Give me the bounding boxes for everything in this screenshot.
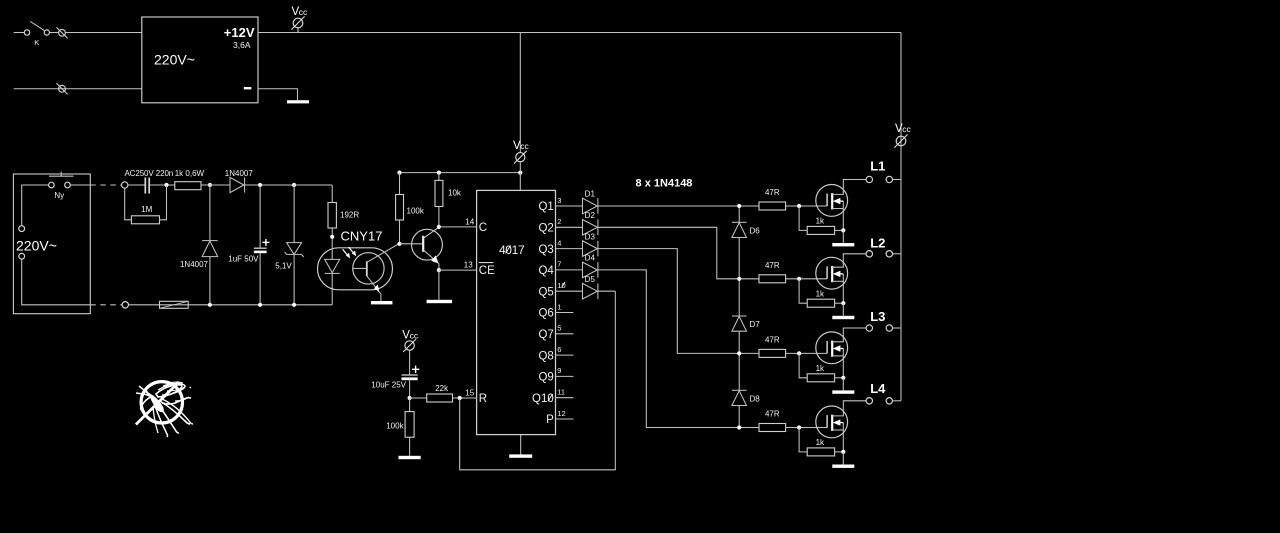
resistor 1k (row 1) — [807, 226, 834, 234]
load terminal L1 (left circle) — [866, 176, 872, 182]
opto phototransistor emitter lead — [367, 276, 381, 294]
MOSFET T3 source lead — [832, 349, 843, 378]
wire: 1k to source node (row 3) — [835, 377, 844, 379]
wire: terminal to capacitor C1 — [128, 184, 145, 186]
wire: gate node to 1k (row 2) — [799, 279, 807, 303]
wire: zener bottom lead — [293, 254, 295, 304]
pin stub Q10 (pin 11) — [556, 397, 574, 399]
svg-text:22k: 22k — [435, 384, 449, 393]
MOSFET T2 (circle) — [816, 257, 848, 289]
wire: Ny to box edge — [70, 184, 90, 186]
MOSFET T2 gate bar — [826, 266, 828, 278]
wire: 1k to source node (row 4) — [835, 451, 844, 453]
wire: lower terminal to box edge (bottom) — [22, 259, 91, 305]
wire: rail to R5 10k — [438, 173, 440, 181]
diode D 1N4007 (shunt, vertical) — [202, 241, 218, 257]
label D4 — [585, 254, 596, 263]
node dot (gate bus row 3) — [737, 351, 741, 355]
pin stub Q5 (pin 10) — [556, 290, 583, 292]
MOSFET T3 (circle) — [816, 332, 848, 364]
Q1 base bar — [422, 236, 424, 252]
svg-text:1uF 50V: 1uF 50V — [228, 254, 259, 263]
svg-text:100k: 100k — [386, 422, 404, 431]
wire: source node to ground (row 3) — [842, 378, 844, 391]
node dot (reset pin node) — [458, 396, 462, 400]
MOSFET T1 source lead — [832, 201, 843, 230]
label 1uF 50V — [228, 254, 259, 263]
wire: C2 bottom lead — [259, 253, 261, 305]
svg-text:AC250V 220n: AC250V 220n — [124, 169, 173, 178]
diode D1 1N4148 — [583, 198, 598, 214]
plus sign (C2 polarity) — [262, 239, 269, 246]
wire: upper terminal to Ny — [22, 185, 49, 226]
MOSFET T1 body arrow — [834, 199, 844, 204]
svg-text:10k: 10k — [448, 188, 462, 197]
Vcc rail (over transistor) — [400, 172, 521, 174]
label D1 — [585, 190, 596, 199]
MOSFET T2 body arrow — [834, 271, 844, 276]
wire: 47R to gate (row 1) — [786, 205, 828, 207]
switch K lever — [30, 21, 44, 30]
MOSFET T4 channel bar — [831, 415, 833, 431]
ground (R7) — [399, 456, 421, 459]
node dot (zener node) — [292, 183, 296, 187]
label 1k (row 3) — [816, 364, 825, 373]
line terminal (bottom, circle) — [122, 302, 128, 308]
pin label Q9 — [538, 372, 553, 384]
wire: R5 to collector node — [438, 207, 440, 227]
wire: mains N (bottom) — [14, 88, 142, 90]
label 1M — [141, 205, 152, 214]
load terminal L2 (left circle) — [866, 251, 872, 257]
svg-text:D1: D1 — [585, 190, 596, 199]
MOSFET T4 gate bar — [826, 415, 828, 427]
svg-text:8 x 1N4148: 8 x 1N4148 — [636, 177, 693, 189]
dashed wire (top, to terminal) — [90, 184, 121, 186]
ground (Q1 emitter) — [427, 300, 453, 303]
svg-text:5,1V: 5,1V — [275, 262, 292, 271]
wire: CE node to 4017 pin CE — [439, 269, 477, 271]
svg-text:D8: D8 — [750, 394, 761, 403]
svg-text:1k: 1k — [816, 289, 825, 298]
label 5,1V — [275, 262, 292, 271]
svg-text:D2: D2 — [585, 211, 596, 220]
svg-text:47R: 47R — [765, 410, 780, 419]
svg-text:14: 14 — [465, 217, 474, 226]
MOSFET T3 gate bar — [826, 341, 828, 353]
opto light arrow 2 — [349, 247, 356, 255]
opto phototransistor collector lead — [367, 244, 399, 262]
svg-text:47R: 47R — [765, 336, 780, 345]
label 22k — [435, 384, 449, 393]
svg-text:1: 1 — [557, 302, 561, 311]
line terminal X2 (slashed circle, bottom) — [56, 83, 67, 94]
wire: D1 cathode route — [598, 205, 759, 207]
svg-text:192R: 192R — [340, 211, 359, 220]
node dot (Vcc rail / 100k) — [397, 171, 401, 175]
diode D6 1N4148 (vertical) — [732, 222, 747, 237]
wire: D5 cathode route — [598, 290, 615, 292]
ground (source row 4) — [832, 465, 854, 468]
label AC250V 220n — [124, 169, 173, 178]
label 1k (row 2) — [816, 289, 825, 298]
node dot (gate bus row 2) — [737, 277, 741, 281]
Vcc symbol (reset RC) — [402, 330, 419, 353]
svg-text:cc: cc — [520, 141, 529, 151]
pin label Q10 — [532, 393, 554, 405]
svg-text:5: 5 — [557, 324, 561, 333]
load terminal L4 (right circle) — [886, 398, 892, 404]
resistor 1k (row 4) — [807, 448, 834, 456]
label 100k (base pull-up) — [407, 206, 425, 215]
resistor 1k (row 3) — [807, 374, 834, 382]
wire: 1k to source node (row 2) — [835, 302, 844, 304]
Q1 emitter lead — [423, 250, 439, 264]
wire: Vcc bus (right vertical) — [900, 33, 902, 401]
pin number 4 — [557, 238, 561, 247]
node dot (emitter / pin CE) — [437, 268, 441, 272]
wire: terminal down to R2 1M — [125, 188, 132, 220]
pin number 6 — [557, 345, 561, 354]
wire: D4 cathode route — [598, 270, 759, 428]
wire: R2 to node — [160, 185, 167, 220]
MOSFET T4 (circle) — [816, 406, 848, 438]
MOSFET T2 source lead — [832, 274, 843, 303]
load terminal L3 (right circle) — [886, 325, 892, 331]
wire: C1 to R1 — [150, 184, 175, 186]
svg-text:13: 13 — [464, 260, 473, 269]
svg-text:10uF 25V: 10uF 25V — [371, 381, 406, 390]
feedback wire: reset node to D5 — [460, 291, 616, 470]
dashed wire (bottom, to terminal) — [90, 304, 122, 306]
wire: gate bus above D8 — [738, 353, 740, 390]
node dot (gate/1k row 4) — [797, 425, 801, 429]
ground (source row 1) — [832, 243, 854, 246]
MOSFET T4 drain lead — [832, 401, 866, 416]
wire: node to R6 22k — [410, 397, 427, 399]
logo: crossed-out mosquito emblem — [136, 382, 193, 437]
wire: +12V rail (top) — [258, 32, 901, 34]
pin stub Q3 (pin 4) — [556, 248, 583, 250]
pin stub Q2 (pin 2) — [556, 226, 583, 228]
wire: gate node to 1k (row 3) — [799, 353, 807, 377]
svg-text:220V~: 220V~ — [16, 238, 57, 254]
label CNY17 — [341, 228, 383, 243]
opto LED cathode lead — [331, 273, 333, 304]
pin number 5 — [557, 324, 561, 333]
svg-text:9: 9 — [557, 366, 561, 375]
IC U1 4017 (body) — [477, 190, 556, 434]
diode D7 1N4148 (vertical) — [732, 316, 747, 331]
pin number 3 — [557, 196, 561, 205]
svg-text:Q4: Q4 — [538, 265, 554, 277]
wire: R4 to base node — [399, 220, 401, 244]
wire: gate bus below D8 — [738, 406, 740, 428]
svg-text:D6: D6 — [750, 226, 761, 235]
pin label CE (with overline) — [479, 263, 495, 278]
MOSFET T1 gate bar — [826, 194, 828, 206]
wire: zener top lead — [293, 185, 295, 243]
label D8 — [750, 394, 761, 403]
label 1N4007 (shunt diode) — [180, 260, 209, 269]
node dot (bottom, C2) — [258, 303, 262, 307]
label 220V~ (PSU input) — [154, 52, 195, 68]
svg-text:Q8: Q8 — [538, 350, 553, 362]
ground (optocoupler emitter) — [371, 301, 393, 304]
svg-text:D7: D7 — [750, 320, 761, 329]
pin stub Q7 (pin 5) — [556, 333, 574, 335]
label 3,6A — [233, 40, 251, 50]
MOSFET T2 channel bar — [831, 266, 833, 282]
label 10k — [448, 188, 462, 197]
svg-text:Q1: Q1 — [538, 201, 553, 213]
load terminal L1 (right circle) — [886, 176, 892, 182]
resistor 47R (row 2) — [759, 275, 786, 283]
capacitor C2 1uF 50V plates — [254, 248, 267, 253]
wire: R7 to ground — [409, 437, 411, 456]
fuse F1 (rect with diagonal) — [160, 301, 189, 308]
load terminal L3 (left circle) — [866, 325, 872, 331]
opto phototransistor base lead — [353, 267, 367, 269]
resistor R5 10k — [435, 180, 443, 206]
svg-text:15: 15 — [465, 388, 474, 397]
label L2 — [870, 236, 885, 251]
pin stub Q4 (pin 7) — [556, 269, 583, 271]
label D3 — [585, 232, 596, 241]
svg-text:2: 2 — [557, 217, 561, 226]
wire: mains L to switch K — [14, 32, 25, 34]
wire: gate bus above D6 — [738, 206, 740, 222]
label K — [34, 38, 39, 47]
resistor R3 192R — [328, 203, 336, 229]
wire: 47R to gate (row 4) — [786, 427, 828, 429]
svg-text:R: R — [479, 393, 487, 405]
wire: emitter to CE node — [438, 264, 440, 271]
plus sign (C3 polarity) — [412, 366, 419, 373]
label D2 — [585, 211, 596, 220]
label 1k (row 1) — [816, 217, 825, 226]
wire: diode to node — [245, 184, 295, 186]
svg-text:Q5: Q5 — [538, 286, 553, 298]
wire: R1 to D1N4007a — [201, 184, 230, 186]
pin label Q6 — [538, 308, 553, 320]
label L4 — [870, 381, 886, 396]
wire: emitter node to ground — [438, 270, 440, 300]
label - (PSU negative) — [244, 87, 252, 89]
svg-text:220V~: 220V~ — [154, 52, 195, 68]
wire: L2 right terminal to Vcc bus — [893, 253, 902, 255]
svg-text:4: 4 — [557, 238, 561, 247]
label 1k 0,6W — [175, 169, 205, 178]
MOSFET T1 drain lead — [832, 180, 866, 195]
line terminal (top, circle) — [122, 182, 128, 188]
node dot (base node) — [397, 242, 401, 246]
pin stub P (pin 12) — [556, 418, 574, 420]
opto phototransistor base bar — [366, 261, 368, 276]
pin label Q2 — [538, 223, 553, 235]
wire: L1 right terminal to Vcc bus — [893, 179, 902, 181]
svg-text:D3: D3 — [585, 232, 596, 241]
pin label Q8 — [538, 350, 553, 362]
resistor R4 100k — [396, 195, 404, 221]
wire: switch K to line terminal — [49, 32, 58, 34]
wire: C3 to reset node — [409, 380, 411, 398]
node dot (C3/22k/100k) — [408, 396, 412, 400]
push-button Ny contact (left) — [49, 182, 55, 188]
node dot (gate/1k row 2) — [797, 277, 801, 281]
diode D4 1N4148 — [583, 262, 598, 278]
label 192R — [340, 211, 359, 220]
wire: source node to ground (row 4) — [842, 452, 844, 465]
zener diode ZD 5,1V — [285, 243, 304, 257]
svg-text:C: C — [479, 222, 487, 234]
svg-text:Q3: Q3 — [538, 244, 553, 256]
svg-text:CNY17: CNY17 — [341, 228, 383, 243]
node dot (cap node) — [258, 183, 262, 187]
diode D 1N4007 (horizontal) — [230, 177, 245, 192]
node dot (C1/R1/1M) — [164, 183, 168, 187]
svg-text:K: K — [34, 38, 39, 47]
label 1k (row 4) — [816, 438, 825, 447]
pin number 15 — [465, 388, 474, 397]
wire: L4 right terminal to Vcc bus — [893, 400, 902, 402]
svg-text:+12V: +12V — [224, 25, 255, 40]
svg-text:11: 11 — [557, 388, 565, 397]
node dot (Vcc rail / 10k) — [437, 171, 441, 175]
capacitor C1 (X-cap 220n) plates — [145, 178, 149, 194]
resistor R7 100k — [405, 412, 414, 438]
node dot (source/1k row 2) — [841, 301, 845, 305]
label +12V (PSU output) — [224, 25, 255, 40]
wire: 1k to source node (row 1) — [835, 229, 844, 231]
wire: gate bus above D7 — [738, 279, 740, 316]
pin label Q4 — [538, 265, 554, 277]
diode D3 1N4148 — [583, 241, 598, 257]
wire: gate bus below D7 — [738, 331, 740, 353]
push-button Ny contact (right) — [65, 182, 71, 188]
resistor 1k (row 2) — [807, 299, 834, 307]
label 220V~ (source) — [16, 238, 57, 254]
wire: Vcc to C3 — [409, 350, 411, 375]
node dot (bottom, zener) — [292, 303, 296, 307]
svg-text:1k 0,6W: 1k 0,6W — [175, 169, 205, 178]
pin label Q3 — [538, 244, 553, 256]
power supply module PS1 (box) — [142, 17, 258, 103]
MOSFET T3 drain lead — [832, 328, 866, 342]
MOSFET T4 source lead — [832, 423, 843, 452]
svg-text:Q9: Q9 — [538, 372, 553, 384]
node dot (source/1k row 4) — [841, 450, 845, 454]
node dot (gate/1k row 3) — [797, 351, 801, 355]
push-button Ny actuator bar — [49, 172, 73, 177]
svg-text:L4: L4 — [870, 381, 886, 396]
node dot (source/1k row 1) — [841, 228, 845, 232]
svg-text:Q7: Q7 — [538, 329, 553, 341]
pin number 10 — [557, 281, 565, 290]
svg-text:cc: cc — [410, 331, 419, 341]
ground (PSU) — [287, 100, 309, 103]
label L3 — [870, 309, 885, 324]
pin number 14 — [465, 217, 474, 226]
pin label Q1 — [538, 201, 553, 213]
label 100k (reset pull-down) — [386, 422, 404, 431]
pin stub Q8 (pin 6) — [556, 354, 574, 356]
Vcc symbol (right bus) — [894, 123, 911, 148]
label 10uF 25V — [371, 381, 406, 390]
bottom return rail — [129, 304, 333, 306]
diode D8 1N4148 (vertical) — [732, 390, 747, 405]
node dot (source/1k row 3) — [841, 376, 845, 380]
label 47R (row 3) — [765, 336, 780, 345]
label 47R (row 4) — [765, 410, 780, 419]
source terminal (upper circle) — [19, 226, 25, 232]
opto light arrow 1 — [343, 249, 350, 257]
wire: 4017 VSS to ground — [520, 435, 522, 455]
svg-text:12: 12 — [557, 409, 565, 418]
svg-text:7: 7 — [557, 260, 561, 269]
wire: 192R to opto LED — [331, 228, 333, 248]
node dot (gate bus row 1) — [737, 204, 741, 208]
wire: Vcc node to 4017 VDD — [519, 173, 521, 191]
label L1 — [870, 159, 885, 174]
resistor 47R (row 4) — [759, 424, 786, 432]
label 1N4007 (series diode) — [225, 169, 254, 178]
resistor R1 1k 0,6W — [175, 182, 201, 190]
wire: terminal to PSU input (top) — [66, 32, 142, 34]
pin number 1 — [557, 302, 561, 311]
wire: 47R to gate (row 2) — [786, 278, 828, 280]
svg-text:CE: CE — [479, 265, 495, 277]
wire: Vcc symbol to rail — [519, 162, 521, 173]
MOSFET T3 body arrow — [834, 346, 844, 351]
svg-text:1k: 1k — [816, 438, 825, 447]
svg-text:100k: 100k — [407, 206, 425, 215]
MOSFET T4 body arrow — [834, 420, 844, 425]
label D7 — [750, 320, 761, 329]
Vcc symbol (top left) — [291, 6, 308, 33]
wire: PSU negative to ground — [258, 89, 298, 101]
label 47R (row 1) — [765, 188, 780, 197]
pin number 11 — [557, 388, 565, 397]
resistor 47R (row 1) — [759, 202, 786, 210]
wire: gate node to 1k (row 1) — [799, 206, 807, 230]
svg-text:3,6A: 3,6A — [233, 40, 251, 50]
pin label Q5 — [538, 286, 553, 298]
MOSFET T1 (circle) — [816, 185, 848, 217]
resistor 47R (row 3) — [759, 349, 786, 357]
ground (source row 2) — [832, 316, 854, 319]
svg-text:cc: cc — [299, 7, 308, 17]
line terminal X1 (slashed circle, top) — [56, 27, 67, 38]
wire: gate bus below D6 — [738, 238, 740, 279]
wire: R6 to reset pin node — [453, 397, 477, 399]
wire: D3 cathode route — [598, 249, 759, 354]
wire: node to 192R corner — [294, 184, 332, 186]
svg-text:1k: 1k — [816, 364, 825, 373]
svg-text:Q10: Q10 — [532, 393, 554, 405]
wire: source node to ground (row 2) — [842, 303, 844, 316]
svg-text:47R: 47R — [765, 188, 780, 197]
label 8 x 1N4148 — [636, 177, 693, 189]
capacitor C3 10uF 25V plates — [402, 375, 418, 380]
pin label Q7 — [538, 329, 553, 341]
transistor Q1 (circle) — [412, 229, 443, 260]
svg-text:6: 6 — [557, 345, 561, 354]
label Ny — [54, 191, 64, 200]
wire: rail corner into 192R — [331, 185, 333, 203]
optocoupler U2 CNY17 (outline) — [318, 248, 393, 290]
Q1 collector lead — [423, 227, 439, 238]
